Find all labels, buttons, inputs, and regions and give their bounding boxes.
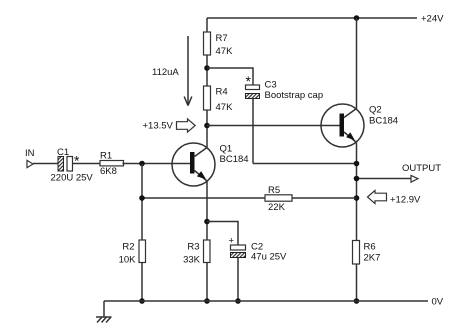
wire R4 bottom to Q1 collector — [206, 110, 208, 148]
svg-text:Q1: Q1 — [220, 144, 233, 155]
svg-text:C3: C3 — [265, 80, 277, 91]
svg-text:112uA: 112uA — [152, 67, 179, 78]
wire R1 to Q1 base — [123, 163, 191, 165]
wire bias node down to ground rail — [141, 164, 143, 302]
svg-text:33K: 33K — [183, 255, 201, 266]
wire rail to R7 top — [206, 18, 208, 32]
capacitor C1 positive plate — [67, 157, 73, 172]
svg-text:R7: R7 — [216, 33, 228, 44]
svg-text:R1: R1 — [100, 151, 112, 162]
transistor Q1 — [172, 143, 215, 186]
svg-text:IN: IN — [25, 148, 35, 159]
junction node R4/Q1 collector/Q2 base — [204, 123, 210, 129]
annotation arrow pointing at output node (+12.9V) — [368, 190, 387, 203]
junction C2/ground rail — [235, 298, 241, 304]
wire C3 bottom to output node — [253, 163, 357, 165]
junction R2/ground rail — [139, 298, 145, 304]
svg-text:OUTPUT: OUTPUT — [402, 163, 441, 174]
wire C3 bottom down — [252, 99, 254, 164]
junction R3/ground rail — [204, 298, 210, 304]
svg-text:6K8: 6K8 — [100, 166, 117, 177]
svg-text:Q2: Q2 — [369, 105, 382, 116]
svg-text:R5: R5 — [268, 185, 280, 196]
svg-text:22K: 22K — [268, 202, 286, 213]
svg-text:BC184: BC184 — [369, 116, 398, 127]
wire R5 feedback line — [142, 197, 357, 199]
svg-text:2K7: 2K7 — [364, 253, 381, 264]
terminal IN connector — [27, 160, 33, 167]
svg-text:47K: 47K — [216, 46, 234, 57]
wire +24V supply rail — [207, 17, 417, 19]
wire C2 branch — [207, 222, 238, 246]
terminal OUTPUT connector — [411, 175, 418, 182]
svg-text:10K: 10K — [119, 255, 137, 266]
capacitor C3 negative (hatched) plate — [246, 94, 260, 99]
svg-text:C1: C1 — [57, 147, 69, 158]
svg-text:R6: R6 — [364, 242, 376, 253]
capacitor C2 positive plate — [231, 245, 246, 250]
resistor R6 — [353, 241, 360, 265]
wire node to C3 top — [207, 68, 253, 85]
junction R1/R2/R5 bias node — [139, 161, 145, 167]
capacitor C1 negative (hatched) plate — [58, 157, 64, 172]
resistor R1 — [100, 161, 124, 166]
junction Q1 emitter / C2 branch — [204, 219, 210, 225]
wire C1 to R1 — [73, 163, 101, 165]
wire R7 bottom to R4 top — [206, 55, 208, 86]
wire 0V ground rail — [104, 300, 428, 302]
capacitor C2 negative (hatched) plate — [231, 253, 246, 258]
svg-text:0V: 0V — [432, 297, 444, 308]
junction on +24V rail at Q2 collector branch — [354, 15, 360, 21]
transistor Q2 — [321, 104, 364, 147]
svg-text:R4: R4 — [216, 87, 228, 98]
wire Q2 emitter down to ground rail — [356, 143, 358, 302]
svg-text:47K: 47K — [216, 102, 234, 113]
junction bias line / R5 — [139, 195, 145, 201]
resistor R4 — [204, 86, 211, 110]
junction R6/ground rail — [354, 298, 360, 304]
wire Q2 collector to +24V rail — [356, 18, 358, 109]
wire Q1 emitter down to R3 — [206, 181, 208, 301]
svg-text:BC184: BC184 — [220, 154, 249, 165]
resistor R3 — [204, 240, 211, 263]
current arrow 112uA — [184, 36, 192, 106]
junction node R7/R4/C3 — [204, 65, 210, 71]
svg-text:+: + — [229, 236, 235, 247]
junction R5/output node — [354, 195, 360, 201]
wire IN to C1 — [33, 163, 58, 165]
annotation arrow pointing at Q1 collector node — [177, 119, 196, 132]
svg-text:220U 25V: 220U 25V — [51, 173, 94, 184]
svg-text:Bootstrap cap: Bootstrap cap — [265, 90, 324, 101]
svg-text:R3: R3 — [187, 242, 199, 253]
junction OUTPUT branch — [354, 176, 360, 182]
svg-text:R2: R2 — [122, 242, 134, 253]
svg-text:*: * — [74, 153, 80, 169]
svg-text:47u 25V: 47u 25V — [251, 252, 287, 263]
ground symbol — [96, 301, 112, 323]
svg-text:+13.5V: +13.5V — [143, 121, 174, 132]
resistor R2 — [139, 240, 146, 263]
svg-text:*: * — [246, 73, 252, 89]
junction C3/output node — [354, 161, 360, 167]
wire C2 bottom to ground rail — [237, 258, 239, 302]
wire output node to OUTPUT terminal — [357, 178, 412, 180]
capacitor C3 positive plate — [246, 85, 260, 90]
resistor R5 — [265, 195, 292, 201]
svg-text:+12.9V: +12.9V — [390, 195, 421, 206]
wire Q1 collector node to Q2 base — [207, 125, 340, 127]
svg-text:+24V: +24V — [421, 14, 444, 25]
resistor R7 — [204, 32, 211, 55]
